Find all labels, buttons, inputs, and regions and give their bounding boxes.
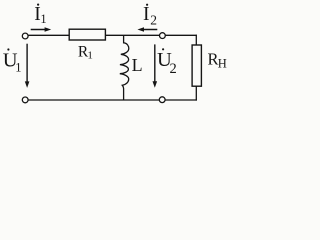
voltage arrow U1: [26, 44, 28, 85]
voltage arrow U2: [154, 44, 156, 84]
overdot of I1: [37, 4, 39, 6]
svg-text:1: 1: [40, 12, 46, 26]
inductor L: [120, 35, 129, 100]
overdot of I2: [146, 4, 148, 6]
wire top segment B (R1 to right terminal): [106, 34, 160, 36]
terminal top-left: [22, 33, 28, 39]
svg-text:2: 2: [150, 12, 157, 27]
wire top segment C (terminal to right corner): [166, 34, 197, 36]
wire right vertical upper (corner to RH top): [195, 35, 197, 45]
overdot of U1: [7, 48, 9, 50]
svg-text:1: 1: [87, 50, 93, 62]
wire bottom segment A (bottom-left terminal to bottom-right terminal): [29, 99, 160, 101]
overdot of U2: [162, 48, 164, 50]
wire top segment A (terminal to R1): [29, 34, 69, 36]
current arrow I2: [141, 29, 157, 31]
svg-text:1: 1: [15, 60, 21, 74]
terminal bottom-right: [159, 97, 165, 103]
terminal bottom-left: [22, 97, 28, 103]
resistor R1: [69, 29, 105, 40]
terminal top-right: [160, 33, 166, 39]
svg-text:H: H: [218, 56, 227, 70]
svg-text:2: 2: [170, 61, 177, 77]
svg-text:I: I: [143, 4, 150, 25]
wire right vertical lower (RH bottom to bottom wire): [195, 86, 197, 101]
current arrow I1: [31, 29, 48, 31]
wire bottom segment C (right corner to bottom-right terminal): [166, 99, 197, 101]
svg-text:L: L: [132, 55, 143, 75]
resistor RH: [192, 45, 201, 86]
